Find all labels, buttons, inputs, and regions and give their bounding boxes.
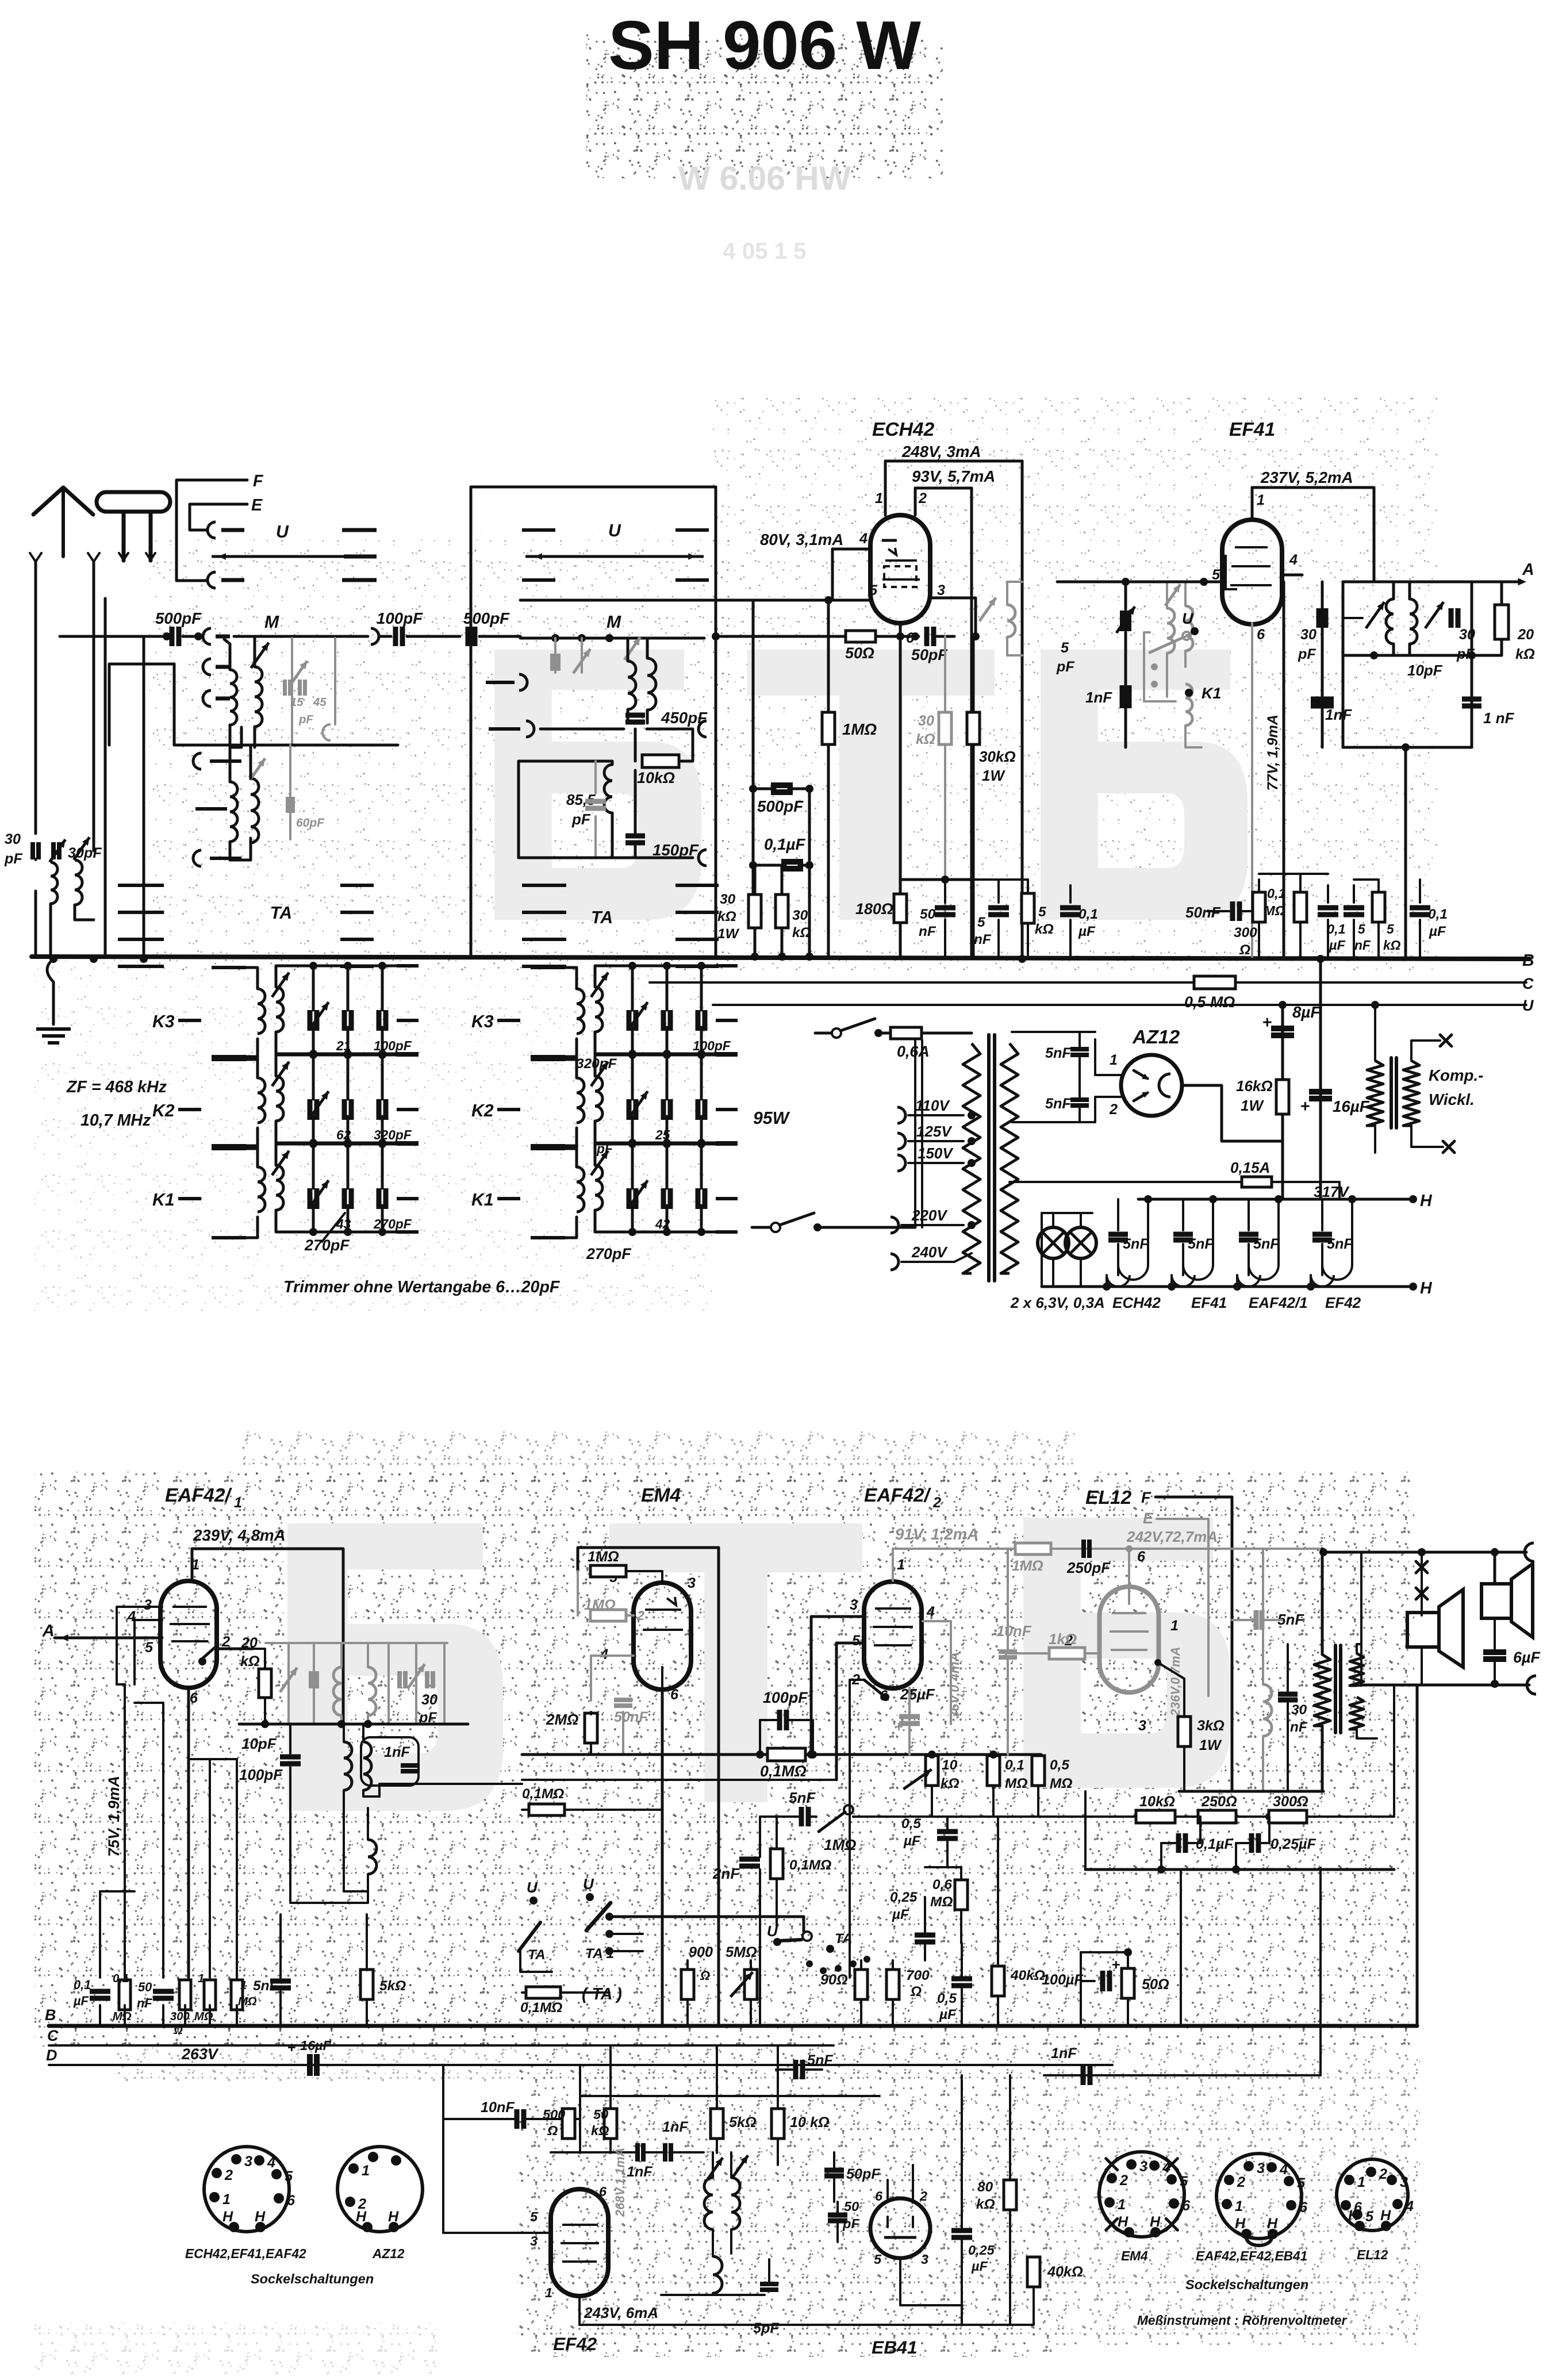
- svg-text:320pF: 320pF: [576, 1056, 617, 1072]
- output transformer secondary top: [1350, 1653, 1364, 1686]
- capacitor 30pF cluster1: [1316, 608, 1322, 628]
- svg-text:pF: pF: [842, 2216, 859, 2231]
- wire sub bottom: [579, 2324, 1034, 2325]
- resistor 0,6MΩ: [955, 1880, 968, 1910]
- capacitor 8µF: [1271, 1026, 1294, 1031]
- svg-text:0,15A: 0,15A: [1230, 1159, 1270, 1176]
- svg-text:Komp.-: Komp.-: [1429, 1066, 1483, 1084]
- svg-text:Ω: Ω: [910, 1984, 922, 1999]
- pilot lamp 1: [1038, 1227, 1069, 1258]
- wire main audio line: [522, 1753, 767, 1756]
- svg-text:A: A: [1522, 561, 1534, 579]
- svg-text:EAF42/: EAF42/: [165, 1485, 233, 1506]
- wire 80V anode line: [520, 599, 870, 602]
- svg-text:kΩ: kΩ: [916, 731, 935, 747]
- resistor 20kΩ: [1495, 605, 1509, 639]
- resistor 5kΩ mid: [360, 1970, 373, 1999]
- resistor 0,1MΩ: [1294, 892, 1307, 922]
- svg-text:2 x 6,3V, 0,3A: 2 x 6,3V, 0,3A: [1010, 1294, 1105, 1311]
- svg-text:5: 5: [145, 1640, 153, 1656]
- wire B+ vertical x1778: [1021, 461, 1024, 957]
- resistor 5kΩ: [1022, 893, 1034, 923]
- trimmer cluster2: [1425, 602, 1444, 628]
- svg-text:MΩ: MΩ: [113, 2010, 132, 2023]
- svg-text:Meßinstrument : Röhrenvoltmete: Meßinstrument : Röhrenvoltmeter: [1137, 2313, 1347, 2328]
- wire antenna-left to bus: [34, 891, 37, 957]
- wire x2297 segment: [1320, 1868, 1321, 1870]
- svg-text:6: 6: [190, 1690, 198, 1706]
- svg-text:30: 30: [1291, 1702, 1307, 1718]
- capacitor 16µF: [1309, 1089, 1332, 1095]
- svg-text:nF: nF: [137, 1996, 152, 2010]
- svg-text:0,1µF: 0,1µF: [764, 835, 805, 853]
- wire AGC top row: [1259, 873, 1328, 875]
- svg-text:µF: µF: [73, 1994, 89, 2008]
- svg-text:6: 6: [1137, 1549, 1146, 1565]
- svg-text:+: +: [1262, 1014, 1272, 1032]
- svg-text:100pF: 100pF: [377, 609, 423, 627]
- svg-text:248V, 3mA: 248V, 3mA: [901, 443, 981, 460]
- gray bus 2692: [893, 1548, 1323, 1550]
- svg-text:10: 10: [942, 1757, 958, 1773]
- svg-text:6: 6: [287, 2193, 295, 2209]
- tube EAF42/2: [864, 1581, 922, 1688]
- wire EAF42-2 pin4 gray: [923, 1620, 951, 1622]
- wire mid row left panel: [174, 744, 398, 747]
- bus C lower: [49, 2044, 834, 2047]
- watermark letter B lower-right: [1023, 1518, 1230, 1788]
- svg-text:0,1: 0,1: [74, 1978, 91, 1992]
- svg-text:3: 3: [850, 1597, 858, 1613]
- resistor 5kΩ sub: [711, 2109, 723, 2139]
- svg-text:H: H: [1235, 2216, 1246, 2232]
- gray coil lower: [1185, 684, 1192, 725]
- svg-text:U: U: [608, 521, 621, 540]
- trimmer cluster1: [1366, 602, 1384, 628]
- svg-text:+: +: [1300, 1097, 1310, 1116]
- switch U mid: [773, 1938, 781, 1946]
- svg-text:93V, 5,7mA: 93V, 5,7mA: [912, 467, 995, 485]
- capacitor 0,1µF cath: [1060, 905, 1081, 911]
- svg-text:5nF: 5nF: [1045, 1045, 1071, 1061]
- EF41 electrodes: [1235, 546, 1268, 548]
- main ground bus upper: [32, 957, 1529, 959]
- resistor 1MΩ grid: [827, 600, 830, 712]
- wire antenna down-right: [93, 604, 95, 851]
- svg-text:263V: 263V: [181, 2045, 219, 2063]
- svg-text:µF: µF: [1078, 924, 1096, 939]
- svg-text:50pF: 50pF: [911, 646, 947, 663]
- switch contact U row3: [208, 572, 216, 588]
- wire top bus to panel2: [479, 635, 520, 638]
- capacitor 30nF out: [1278, 1692, 1298, 1697]
- svg-text:0,1: 0,1: [1267, 886, 1286, 901]
- svg-text:U: U: [527, 1879, 538, 1896]
- svg-text:EF42: EF42: [1325, 1294, 1361, 1311]
- resistor 40kΩ sub: [1027, 2257, 1040, 2287]
- resistor 1MΩ col a: [204, 1980, 216, 2010]
- svg-text:40kΩ: 40kΩ: [1047, 2264, 1083, 2280]
- band selector bracket F/E: [176, 480, 247, 581]
- svg-text:µF: µF: [1329, 938, 1346, 953]
- switch K1 block gray: [1144, 632, 1176, 701]
- wire M row: [234, 635, 368, 638]
- capacitor 10pF: [280, 1755, 301, 1760]
- svg-text:40kΩ: 40kΩ: [1010, 1968, 1045, 1983]
- svg-text:0,1: 0,1: [1327, 922, 1346, 936]
- svg-text:0,25: 0,25: [968, 2243, 995, 2258]
- wire EF42 plate: [578, 2296, 581, 2325]
- potentiometer 5MΩ: [744, 1970, 757, 1999]
- capacitor 5pF: [760, 2282, 778, 2286]
- svg-text:K3: K3: [471, 1012, 494, 1031]
- svg-text:1W: 1W: [1199, 1737, 1222, 1753]
- svg-text:MΩ: MΩ: [238, 1995, 257, 2008]
- svg-text:270pF: 270pF: [373, 1216, 412, 1231]
- svg-text:4: 4: [267, 2155, 275, 2171]
- wire F: [1156, 1497, 1232, 1791]
- svg-text:1: 1: [1257, 492, 1265, 508]
- oscillator coil M secondary: [255, 667, 262, 727]
- svg-text:H: H: [222, 2209, 233, 2225]
- svg-text:0,5: 0,5: [937, 1991, 957, 2006]
- svg-text:EL12: EL12: [1085, 1487, 1132, 1508]
- svg-text:6: 6: [1182, 2198, 1191, 2214]
- svg-text:2: 2: [1237, 2174, 1245, 2190]
- resistor row 10k 250 300: [1136, 1810, 1175, 1823]
- wire EF41 cathode down gray: [1251, 623, 1253, 957]
- svg-text:50Ω: 50Ω: [1142, 1976, 1169, 1993]
- resistor 180Ω: [894, 894, 907, 923]
- wire antenna down-left: [34, 604, 37, 834]
- svg-text:2: 2: [1379, 2166, 1387, 2182]
- switch contact rows TA panel2: [522, 884, 566, 887]
- svg-text:Trimmer ohne Wertangabe 6…20pF: Trimmer ohne Wertangabe 6…20pF: [283, 1278, 561, 1296]
- tube EM4: [634, 1583, 691, 1690]
- resistor 5kΩ r2: [1372, 892, 1385, 922]
- resistor 2MΩ: [585, 1713, 597, 1743]
- capacitor 16µF D: [307, 2054, 313, 2076]
- svg-text:243V, 6mA: 243V, 6mA: [584, 2304, 658, 2321]
- svg-text:42: 42: [655, 1216, 670, 1231]
- svg-text:3: 3: [1138, 1718, 1146, 1734]
- resistor 0,5MΩ on C: [1194, 976, 1235, 989]
- resistor 50Ω: [846, 631, 876, 642]
- svg-text:2: 2: [1109, 1101, 1118, 1118]
- paper speckle upper schematic band: [149, 535, 730, 972]
- switch contact U row1: [208, 522, 216, 538]
- svg-text:C: C: [1522, 975, 1534, 992]
- wire column x217 down: [124, 1684, 126, 1978]
- svg-text:1W: 1W: [1241, 1097, 1264, 1114]
- wire AZ12 input bottom: [1095, 1097, 1120, 1122]
- svg-text:5: 5: [852, 1633, 861, 1649]
- wire speaker vert x2368: [1360, 1552, 1362, 1686]
- svg-text:30: 30: [720, 892, 736, 907]
- svg-text:150pF: 150pF: [652, 841, 699, 859]
- wire grid line EF41: [1057, 581, 1222, 584]
- svg-text:10pF: 10pF: [241, 1735, 277, 1752]
- tap 150V: [897, 1155, 905, 1171]
- svg-text:50: 50: [138, 1980, 152, 1994]
- wire y3249: [1085, 1868, 1394, 1871]
- resistor 0,1MΩ tap: [529, 1804, 565, 1815]
- resistor 40kΩ low: [992, 1966, 1004, 1996]
- capacitor 5nF heater 1: [1117, 1199, 1119, 1230]
- svg-text:F: F: [1141, 1489, 1151, 1506]
- socket EAF42 EF42 EB41: [1216, 2153, 1302, 2239]
- left panel vertical wires: [104, 598, 107, 957]
- junction dots M row: [163, 632, 171, 640]
- tube EL12: [1100, 1587, 1159, 1692]
- svg-text:0,1: 0,1: [113, 1972, 129, 1985]
- gray verticals discriminator: [287, 1643, 290, 1724]
- svg-text:10pF: 10pF: [1407, 662, 1443, 679]
- svg-text:2: 2: [636, 1608, 644, 1623]
- capacitor 1nF sub a: [635, 2143, 640, 2162]
- wire sub row 3744: [551, 2151, 636, 2153]
- svg-text:TA 1: TA 1: [585, 1946, 614, 1961]
- svg-text:95W: 95W: [753, 1109, 790, 1128]
- svg-text:3: 3: [144, 1597, 152, 1613]
- wire disc lower loop: [290, 1784, 368, 1903]
- tap 220V: [891, 1217, 899, 1233]
- svg-text:1kΩ: 1kΩ: [1049, 1630, 1077, 1648]
- wire tone switch to U switch: [609, 1915, 804, 1918]
- tube AZ12: [1121, 1055, 1182, 1116]
- wire HT vertical 16uF: [1319, 959, 1322, 1199]
- ECH42 electrodes: [882, 539, 897, 542]
- resistor 300Ω: [1253, 892, 1265, 922]
- socket ECH42 EF41 EAF42: [204, 2147, 289, 2232]
- svg-text:2: 2: [1119, 2172, 1128, 2189]
- capacitor 2nF: [739, 1857, 760, 1862]
- capacitor 50pF a: [824, 2168, 844, 2173]
- capacitor 50nF em: [614, 1698, 632, 1702]
- oscillator coils sub: [704, 2178, 713, 2229]
- rounded box 1nF: [361, 1737, 419, 1786]
- svg-text:0,6A: 0,6A: [897, 1043, 930, 1060]
- oscillator coil M primary: [230, 670, 237, 725]
- svg-text:EAF42/: EAF42/: [864, 1485, 932, 1506]
- capacitor 1nF busD: [1081, 2066, 1086, 2085]
- watermark letter B upper-right: [1041, 650, 1248, 920]
- svg-text:EB41: EB41: [872, 2337, 918, 2358]
- wire ECH42 pin3 right: [930, 597, 976, 600]
- output transformer primary: [1314, 1655, 1330, 1726]
- capacitor 5nF mid: [270, 1979, 291, 1984]
- resistor 16kΩ 1W: [1276, 1080, 1289, 1114]
- svg-text:50nF: 50nF: [614, 1709, 648, 1725]
- svg-text:237V, 5,2mA: 237V, 5,2mA: [1260, 469, 1353, 486]
- svg-text:268V,1,1mA: 268V,1,1mA: [613, 2148, 627, 2217]
- svg-text:pF: pF: [1056, 659, 1074, 675]
- resistor 0,5MΩ v: [1032, 1756, 1045, 1786]
- coil low: [368, 1840, 377, 1874]
- svg-text:kΩ: kΩ: [591, 2123, 609, 2138]
- svg-text:6: 6: [875, 2189, 883, 2204]
- power transformer primary: [963, 1043, 980, 1273]
- svg-text:2: 2: [932, 1495, 941, 1511]
- junction dots bus: [972, 632, 980, 640]
- svg-text:0,1MΩ: 0,1MΩ: [789, 1857, 831, 1873]
- bus D lower: [49, 2064, 1112, 2066]
- heater line H top: [1138, 1198, 1413, 1201]
- resistor 1MΩ em b: [590, 1610, 626, 1621]
- antenna transformer TA left panel: [230, 782, 237, 842]
- resistor 0,1MΩ sw: [526, 1987, 561, 1998]
- svg-text:H: H: [356, 2209, 367, 2225]
- wire column x412: [236, 1759, 238, 1978]
- wire HT vertical 8uF: [1281, 1005, 1284, 1199]
- svg-text:900: 900: [689, 1944, 713, 1960]
- svg-text:6: 6: [1299, 2199, 1308, 2216]
- svg-text:250pF: 250pF: [1066, 1559, 1111, 1576]
- FM discriminator gray rail top: [266, 1642, 447, 1644]
- svg-text:pF: pF: [4, 851, 22, 867]
- svg-text:125V: 125V: [916, 1123, 953, 1140]
- svg-text:5nF: 5nF: [807, 2052, 833, 2068]
- svg-text:MΩ: MΩ: [1050, 1776, 1072, 1791]
- svg-text:2: 2: [918, 490, 927, 506]
- svg-text:30: 30: [1459, 627, 1475, 643]
- antenna fork terminal 2: [88, 553, 99, 562]
- svg-text:1MΩ: 1MΩ: [1012, 1558, 1043, 1574]
- tube EF41: [1222, 520, 1282, 624]
- resistor 30kΩ 1W vert: [749, 895, 761, 928]
- junction dots decoupling: [751, 953, 759, 961]
- svg-text:3: 3: [530, 2233, 538, 2248]
- capacitor 0,1µF col: [90, 1989, 110, 1994]
- wire B bus right corner: [1416, 1685, 1419, 2026]
- svg-text:1nF: 1nF: [662, 2119, 688, 2135]
- discriminator bottom rail: [239, 1723, 468, 1726]
- wire EF41 pin4 right: [1282, 574, 1302, 577]
- watermark letter T upper-middle: [747, 650, 995, 920]
- band panel 2 frame: [471, 487, 716, 636]
- svg-text:0,1: 0,1: [1428, 907, 1448, 922]
- svg-text:36V,0,4mA: 36V,0,4mA: [947, 1652, 962, 1719]
- svg-text:10nF: 10nF: [996, 1622, 1032, 1640]
- paper speckle upper title area: [586, 34, 943, 178]
- IF output coil cluster: [1342, 582, 1345, 747]
- svg-text:kΩ: kΩ: [1035, 922, 1054, 937]
- svg-text:220V: 220V: [911, 1207, 948, 1224]
- wire EB41 top: [886, 2180, 889, 2198]
- wire speaker rail top: [1323, 1551, 1526, 1554]
- svg-text:Ω: Ω: [1239, 942, 1250, 958]
- svg-text:4: 4: [1405, 2198, 1414, 2214]
- switch contact row U panel2: [522, 528, 555, 532]
- svg-text:10nF: 10nF: [481, 2099, 515, 2116]
- svg-text:5: 5: [1061, 640, 1069, 656]
- coil sub lower: [713, 2256, 722, 2293]
- wire line3: [853, 1815, 1092, 1818]
- svg-text:EF41: EF41: [1191, 1294, 1227, 1311]
- capacitor 5nF heater 2: [1182, 1199, 1184, 1230]
- capacitor 0,25µF out: [1249, 1833, 1254, 1853]
- junction dots ground bus: [49, 955, 57, 963]
- svg-text:75V, 1,9mA: 75V, 1,9mA: [105, 1776, 122, 1857]
- wire ECH42 cathode down: [899, 623, 902, 957]
- svg-text:110V: 110V: [915, 1097, 950, 1114]
- svg-text:EAF42,EF42,EB41: EAF42,EF42,EB41: [1196, 2248, 1307, 2263]
- svg-text:50: 50: [593, 2107, 608, 2122]
- bus C: [650, 981, 1526, 984]
- antenna coupling coils: [51, 862, 57, 904]
- svg-text:µF: µF: [939, 2007, 957, 2022]
- svg-text:H: H: [1420, 1192, 1433, 1210]
- EM4 electrodes: [645, 1609, 681, 1611]
- svg-text:3: 3: [921, 2252, 928, 2267]
- svg-text:MΩ: MΩ: [1005, 1776, 1027, 1791]
- svg-text:B: B: [45, 2006, 56, 2024]
- capacitor 60pF gray: [289, 745, 291, 839]
- svg-text:+: +: [895, 1719, 903, 1735]
- svg-text:5: 5: [1297, 2175, 1306, 2191]
- svg-text:1nF: 1nF: [384, 1744, 410, 1760]
- svg-text:1: 1: [234, 1495, 242, 1511]
- capacitor 5nF heater 4: [1321, 1199, 1323, 1230]
- switch contact TA trafo row2: [195, 807, 227, 811]
- svg-text:SH 906 W: SH 906 W: [608, 7, 921, 84]
- svg-text:TA: TA: [591, 908, 613, 927]
- svg-text:EAF42/1: EAF42/1: [1249, 1294, 1308, 1311]
- svg-text:nF: nF: [974, 932, 992, 947]
- wire sub bottom row: [661, 2294, 765, 2296]
- svg-text:µF: µF: [903, 1833, 921, 1849]
- svg-text:0,1MΩ: 0,1MΩ: [760, 1763, 807, 1780]
- switch wire row U panel2: [525, 555, 704, 558]
- svg-text:H: H: [1348, 2208, 1359, 2224]
- svg-text:5: 5: [285, 2168, 293, 2185]
- wire EB41 bottom: [899, 2258, 901, 2305]
- wire x1478 down: [849, 1817, 851, 1978]
- wire x2054 down: [1180, 1870, 1182, 2026]
- wire cluster bottom: [1343, 746, 1472, 749]
- switch contact row U panel2 b: [522, 578, 555, 582]
- svg-text:3: 3: [937, 582, 945, 598]
- svg-text:1: 1: [240, 1979, 247, 1992]
- capacitor 1nF left cluster: [1311, 697, 1334, 703]
- wire 248V supply: [884, 461, 887, 515]
- svg-text:kΩ: kΩ: [792, 925, 811, 941]
- power transformer core: [987, 1035, 991, 1281]
- resistor 1MΩ em a: [590, 1565, 626, 1577]
- svg-text:10kΩ: 10kΩ: [1139, 1794, 1175, 1810]
- svg-text:0,1MΩ: 0,1MΩ: [520, 2000, 562, 2016]
- switch contact M row2: [203, 659, 211, 675]
- svg-text:kΩ: kΩ: [240, 1653, 260, 1669]
- IF coils gray between stages: [1167, 608, 1174, 653]
- svg-text:16µF: 16µF: [1333, 1097, 1370, 1115]
- svg-text:µF: µF: [314, 2038, 332, 2053]
- wire EAF42-1 grid left: [117, 1607, 162, 1684]
- svg-text:0,1MΩ: 0,1MΩ: [522, 1786, 564, 1802]
- potentiometer 1MΩ arm: [819, 1812, 845, 1832]
- wire A output: [1374, 581, 1522, 584]
- paper speckle lower schematic: [34, 1472, 1414, 2047]
- svg-text:43: 43: [336, 1216, 351, 1231]
- svg-text:nF: nF: [1290, 1719, 1308, 1735]
- ratio detector secondary coils: [344, 1742, 352, 1790]
- svg-text:W 6.06 HW: W 6.06 HW: [678, 160, 851, 197]
- svg-text:16kΩ: 16kΩ: [1236, 1077, 1273, 1095]
- svg-text:F: F: [253, 472, 264, 490]
- svg-text:M: M: [607, 613, 621, 632]
- svg-text:15: 15: [290, 696, 304, 709]
- wire speaker drop: [1421, 1552, 1423, 1615]
